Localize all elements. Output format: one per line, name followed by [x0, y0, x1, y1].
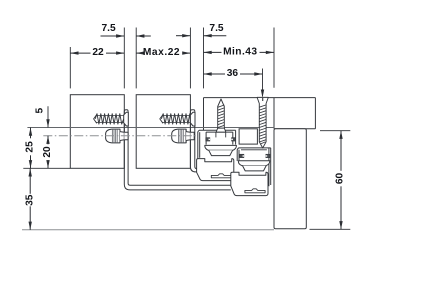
suspension fitting 1 body: [197, 130, 237, 180]
svg-text:Max.22: Max.22: [143, 47, 180, 58]
svg-text:20: 20: [42, 146, 53, 158]
svg-text:36: 36: [227, 68, 239, 79]
extension lines (top dims): [70, 28, 274, 89]
connecting plug 1: [106, 129, 129, 143]
mounting bracket strip 1 with rail channel: [124, 110, 231, 190]
horizontal screw 1: [94, 112, 129, 126]
vertical screw 2: [257, 97, 268, 148]
connecting plug 2: [172, 129, 195, 143]
svg-text:5: 5: [35, 108, 46, 114]
mounting bracket strip 2 with rail channel: [190, 110, 196, 172]
svg-text:25: 25: [25, 141, 36, 153]
dimension Min.43: [204, 47, 275, 58]
svg-text:35: 35: [24, 194, 35, 206]
top mounting panel: [204, 98, 316, 131]
dimension Max.22: [136, 47, 190, 58]
dimension 20: [42, 136, 54, 169]
horizontal screw 2: [160, 112, 195, 126]
dimension 25: [25, 128, 37, 169]
dimension 36 with leader to screw: [204, 68, 265, 98]
svg-text:7.5: 7.5: [102, 23, 116, 34]
svg-text:Min.43: Min.43: [223, 47, 257, 58]
vertical screw 1: [216, 99, 226, 132]
vertical cabinet panel: [274, 129, 306, 229]
svg-text:22: 22: [92, 47, 104, 58]
dimension 60: [310, 131, 351, 230]
dimension 22: [70, 47, 124, 58]
svg-text:7.5: 7.5: [209, 23, 223, 34]
bottom reference line: [22, 229, 274, 231]
suspension fitting 2 body: [231, 129, 271, 196]
cabinet side panel (box Max.22): [136, 95, 190, 169]
dimension 7.5 (left): [101, 23, 151, 38]
svg-text:60: 60: [335, 173, 346, 185]
extension line y=168 left: [23, 167, 70, 169]
dimension 7.5 (right): [176, 23, 226, 38]
dimension 5: [35, 106, 50, 127]
dimension 35: [24, 168, 36, 230]
wall line: [27, 127, 274, 129]
center axis line: [43, 135, 196, 137]
cabinet side panel (box 22): [70, 95, 124, 169]
